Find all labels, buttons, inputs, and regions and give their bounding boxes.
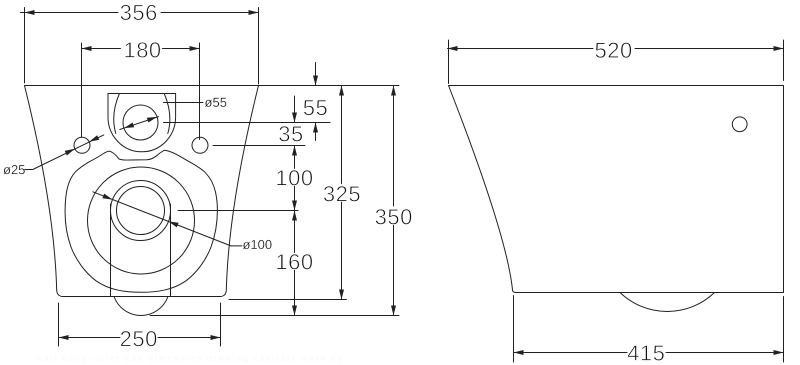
dim 250 right extension line bbox=[220, 303, 222, 346]
svg-text:350: 350 bbox=[375, 204, 413, 229]
svg-text:ø25: ø25 bbox=[3, 162, 25, 177]
right mounting hole (ø25) bbox=[192, 137, 208, 153]
flush opening outer shape bbox=[108, 94, 176, 152]
arrow ø55 lower-left bbox=[124, 123, 134, 129]
ø100 centre extension line bbox=[178, 210, 298, 212]
arrow ø100 upper-left bbox=[102, 194, 112, 200]
dim 520 line bbox=[448, 48, 784, 50]
dim 520 left extension line bbox=[448, 40, 450, 84]
dim 415 line bbox=[514, 352, 784, 354]
arrow 160 bottom bbox=[292, 306, 297, 316]
arrow 415 left bbox=[514, 350, 524, 355]
side view body outline bbox=[449, 86, 784, 293]
dim 356 line bbox=[21, 12, 259, 14]
outlet arc below body bbox=[114, 297, 168, 316]
body bottom extension line bbox=[229, 299, 347, 301]
svg-text:55: 55 bbox=[303, 95, 328, 120]
bowl inner rim circle bbox=[88, 167, 195, 274]
arrow 35 bottom / 100 top bbox=[292, 146, 297, 156]
arrow 350 bottom bbox=[391, 306, 396, 316]
trapway right line bbox=[170, 204, 172, 297]
outlet bottom extension line bbox=[150, 315, 399, 317]
dim 350 shafts bbox=[393, 86, 395, 316]
arrow 180 left bbox=[82, 46, 92, 51]
arrow 356 left bbox=[25, 10, 35, 15]
dim 415 left extension line bbox=[513, 296, 515, 363]
svg-text:35: 35 bbox=[278, 121, 303, 146]
dim 415 right extension line bbox=[783, 297, 785, 363]
arrow ø100 lower-right bbox=[168, 221, 178, 227]
dim 180 right extension line bbox=[199, 43, 201, 140]
arrow 180 right bbox=[190, 46, 200, 51]
ø55 leader line bbox=[164, 102, 204, 104]
left mounting hole (ø25) bbox=[74, 137, 90, 153]
arrow 325 bottom bbox=[339, 290, 344, 300]
arrow 325 top bbox=[339, 86, 344, 96]
dim 55 shafts bbox=[315, 63, 317, 141]
side view outlet arc bbox=[620, 293, 715, 312]
arrow 415 right bbox=[774, 350, 784, 355]
arrow 35 top bbox=[292, 113, 297, 123]
svg-text:ø55: ø55 bbox=[205, 95, 227, 110]
arrow 55 top bbox=[313, 76, 318, 86]
dim 356 right extension line bbox=[258, 8, 260, 85]
arrow 100 bottom bbox=[292, 201, 297, 211]
dim 250 line bbox=[59, 337, 221, 339]
svg-text:wall hung toilet pan dimension: wall hung toilet pan dimension drawing s… bbox=[35, 354, 344, 363]
toilet body outline (top view) bbox=[25, 86, 259, 297]
drain circle ø100 bbox=[111, 181, 171, 241]
svg-text:325: 325 bbox=[323, 181, 361, 206]
dim 520 right extension line bbox=[783, 40, 785, 81]
drain inner circle bbox=[117, 187, 165, 235]
arrow 250 right bbox=[211, 335, 221, 340]
svg-text:356: 356 bbox=[120, 0, 158, 25]
dim 100 and 160 shafts bbox=[294, 185, 296, 316]
arrow 356 right bbox=[249, 10, 259, 15]
dim 356 left extension line bbox=[24, 8, 26, 84]
svg-text:100: 100 bbox=[275, 165, 313, 190]
dim 250 left extension line bbox=[58, 303, 60, 346]
flush valve circle (ø55) bbox=[123, 105, 158, 140]
arrow 520 left bbox=[448, 46, 458, 51]
arrow 350 top bbox=[391, 86, 396, 96]
svg-text:ø100: ø100 bbox=[242, 237, 272, 252]
arrow ø55 upper-right bbox=[147, 117, 157, 123]
ø55 diameter line bbox=[120, 117, 159, 130]
svg-text:520: 520 bbox=[595, 38, 633, 63]
arrow 520 right bbox=[774, 46, 784, 51]
dim 180 left extension line bbox=[81, 43, 83, 137]
dim 325 shafts bbox=[341, 86, 343, 300]
arrow 250 left bbox=[59, 335, 69, 340]
svg-text:415: 415 bbox=[627, 341, 665, 365]
svg-text:160: 160 bbox=[275, 249, 313, 274]
ø55 centre extension line bbox=[164, 122, 331, 124]
ø100 diameter leader line bbox=[93, 192, 242, 246]
svg-text:180: 180 bbox=[123, 37, 161, 62]
arrow 55 bottom bbox=[313, 123, 318, 133]
arrow 160 top bbox=[292, 211, 297, 221]
dim 35 shafts bbox=[294, 96, 296, 169]
dim 180 line bbox=[82, 48, 200, 50]
flush opening left ear bbox=[114, 94, 120, 134]
hole centre extension line bbox=[213, 145, 305, 147]
bowl outer outline bbox=[65, 150, 217, 292]
top edge extension line (right) bbox=[259, 85, 400, 87]
trapway left line bbox=[110, 204, 112, 297]
flush opening right ear bbox=[164, 94, 170, 134]
svg-text:250: 250 bbox=[120, 326, 158, 351]
ø25 leader line bbox=[24, 135, 104, 170]
arrow ø25 lower-left bbox=[65, 149, 75, 156]
side view fixing hole bbox=[732, 117, 747, 132]
arrow ø25 upper-right bbox=[89, 135, 99, 142]
